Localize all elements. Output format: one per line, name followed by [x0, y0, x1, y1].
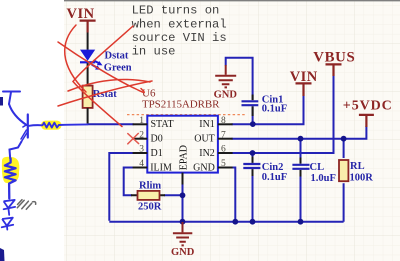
svg-text:VBUS: VBUS	[313, 49, 355, 65]
pin 8 IN1	[218, 123, 233, 125]
wire Cin2 branch	[252, 153, 254, 222]
capacitor pin stubs (black)	[253, 95, 301, 177]
pin 4 ILIM	[133, 167, 148, 169]
hand-drawn power rail T-bar	[3, 92, 20, 105]
svg-text:ILIM: ILIM	[150, 162, 172, 173]
wire IN2 pin6 to VBUS corner	[232, 75, 334, 153]
LED sketch 1	[4, 200, 15, 208]
svg-text:3: 3	[139, 145, 144, 155]
capacitor CL	[292, 165, 309, 169]
resistor RL	[339, 160, 348, 181]
ground rail wire	[109, 221, 343, 223]
pin 7 OUT	[218, 138, 233, 140]
svg-text:0.1uF: 0.1uF	[262, 172, 287, 183]
capacitor Cin2	[243, 164, 260, 168]
svg-text:LED turns on: LED turns on	[132, 4, 220, 18]
svg-text:in use: in use	[132, 45, 176, 59]
wire Cin1 bottom to IN1 net	[252, 106, 254, 124]
annotation note text	[132, 4, 227, 59]
pin 9 EPAD	[182, 173, 184, 185]
svg-text:D1: D1	[151, 148, 163, 159]
edge mark bottom left	[0, 248, 5, 261]
highlighter mark over base resistor sketch	[41, 121, 62, 130]
junction dot IN1/Cin1	[250, 121, 256, 127]
svg-text:Green: Green	[104, 63, 132, 74]
junction dot IN2/Cin2	[250, 150, 256, 156]
wire RL branch	[343, 139, 345, 222]
wire ILIM pin4 to Rlim left	[124, 168, 134, 196]
pin 6 IN2	[218, 152, 233, 154]
svg-text:source VIN is: source VIN is	[132, 31, 227, 45]
pin 2 D0	[133, 138, 148, 140]
svg-text:IN1: IN1	[199, 119, 215, 130]
IC U6 TPS2115ADRBR body	[147, 116, 218, 173]
power port VBUS	[313, 49, 355, 76]
junction dot OUT/CL	[298, 136, 304, 142]
wire STAT pin1 to Rstat node	[88, 123, 134, 125]
edge mark top left	[0, 97, 3, 106]
junction dot Rlim/EPAD	[180, 192, 186, 198]
svg-text:EPAD: EPAD	[178, 145, 189, 170]
junction dot rail/EPAD	[180, 219, 186, 225]
wire D1 pin3 to ground rail	[109, 153, 133, 221]
compile marker dashed line under U6	[127, 114, 245, 116]
transistor Q (sketch) base bar	[27, 115, 29, 138]
junction dot rail/Cin2	[250, 219, 256, 225]
svg-text:8: 8	[221, 116, 226, 126]
svg-text:4: 4	[139, 159, 144, 169]
svg-text:GND: GND	[171, 247, 195, 258]
svg-text:U6: U6	[142, 87, 156, 99]
svg-text:CL: CL	[310, 162, 325, 173]
svg-text:when external: when external	[132, 17, 227, 31]
resistor sketch (lower, zigzag)	[5, 159, 16, 199]
junction dot OUT/RL	[341, 136, 347, 142]
svg-text:OUT: OUT	[194, 134, 215, 145]
pin 1 STAT	[133, 123, 148, 125]
svg-text:1.0uF: 1.0uF	[311, 173, 336, 184]
junction dot rail/CL	[298, 219, 304, 225]
svg-text:RL: RL	[350, 161, 365, 172]
junction dot rail/pin5	[232, 219, 238, 225]
svg-text:+5VDC: +5VDC	[343, 99, 392, 114]
svg-text:GND: GND	[214, 89, 238, 100]
wire LED to Rstat	[87, 63, 89, 85]
resistor sketch (base, zigzag)	[29, 123, 88, 128]
svg-text:250R: 250R	[138, 202, 162, 213]
wire CL branch	[300, 139, 302, 222]
svg-text:7: 7	[221, 130, 226, 140]
wire OUT pin7 to +5VDC corner	[232, 126, 367, 139]
power port VIN (top left)	[67, 6, 96, 33]
svg-text:STAT: STAT	[151, 119, 174, 130]
wire EPAD to ground rail	[182, 184, 184, 222]
ground symbol (bottom)	[173, 222, 192, 245]
svg-text:D0: D0	[151, 134, 163, 145]
pencil arrows (light emission)	[17, 200, 35, 210]
svg-text:TPS2115ADRBR: TPS2115ADRBR	[142, 99, 220, 111]
svg-text:1: 1	[139, 116, 144, 126]
wire Cin1 branch to GND symbol	[226, 58, 253, 100]
hand-drawn wire collector	[9, 104, 27, 125]
LED pin top	[87, 33, 89, 50]
svg-text:IN2: IN2	[199, 148, 215, 159]
capacitor Cin1	[242, 101, 259, 105]
resistor Rlim	[138, 191, 160, 200]
wire GND pin5 to ground rail	[232, 168, 236, 221]
svg-text:VIN: VIN	[67, 6, 95, 22]
svg-text:0.1uF: 0.1uF	[262, 103, 287, 114]
transistor emitter sketch	[21, 130, 28, 142]
svg-text:5: 5	[221, 159, 226, 169]
pin 3 D1	[133, 152, 148, 154]
LED Dstat	[80, 50, 103, 70]
svg-text:100R: 100R	[350, 172, 374, 183]
ground symbol (top, for Cin1)	[215, 65, 236, 87]
deletion mark red X over LED and Rstat	[58, 25, 152, 127]
wire Rlim right to EPAD node	[164, 194, 183, 196]
wire Rstat to STAT node	[87, 108, 89, 124]
highlighter mark over lower resistor sketch	[2, 157, 19, 183]
resistor Rlim terminals	[131, 194, 165, 196]
svg-text:Dstat: Dstat	[105, 51, 129, 62]
LED sketch 2	[2, 218, 13, 226]
resistor Rstat	[83, 86, 93, 108]
deletion mark red X over pin 2 D0	[128, 133, 139, 143]
wire IN1 pin8 to VIN port	[232, 95, 304, 124]
svg-text:GND: GND	[193, 162, 215, 173]
power port +5VDC	[343, 99, 392, 127]
pin 5 GND	[218, 167, 233, 169]
svg-text:2: 2	[139, 130, 144, 140]
svg-text:6: 6	[221, 145, 226, 155]
svg-text:Rlim: Rlim	[139, 180, 161, 191]
power port VIN (right)	[290, 69, 318, 96]
